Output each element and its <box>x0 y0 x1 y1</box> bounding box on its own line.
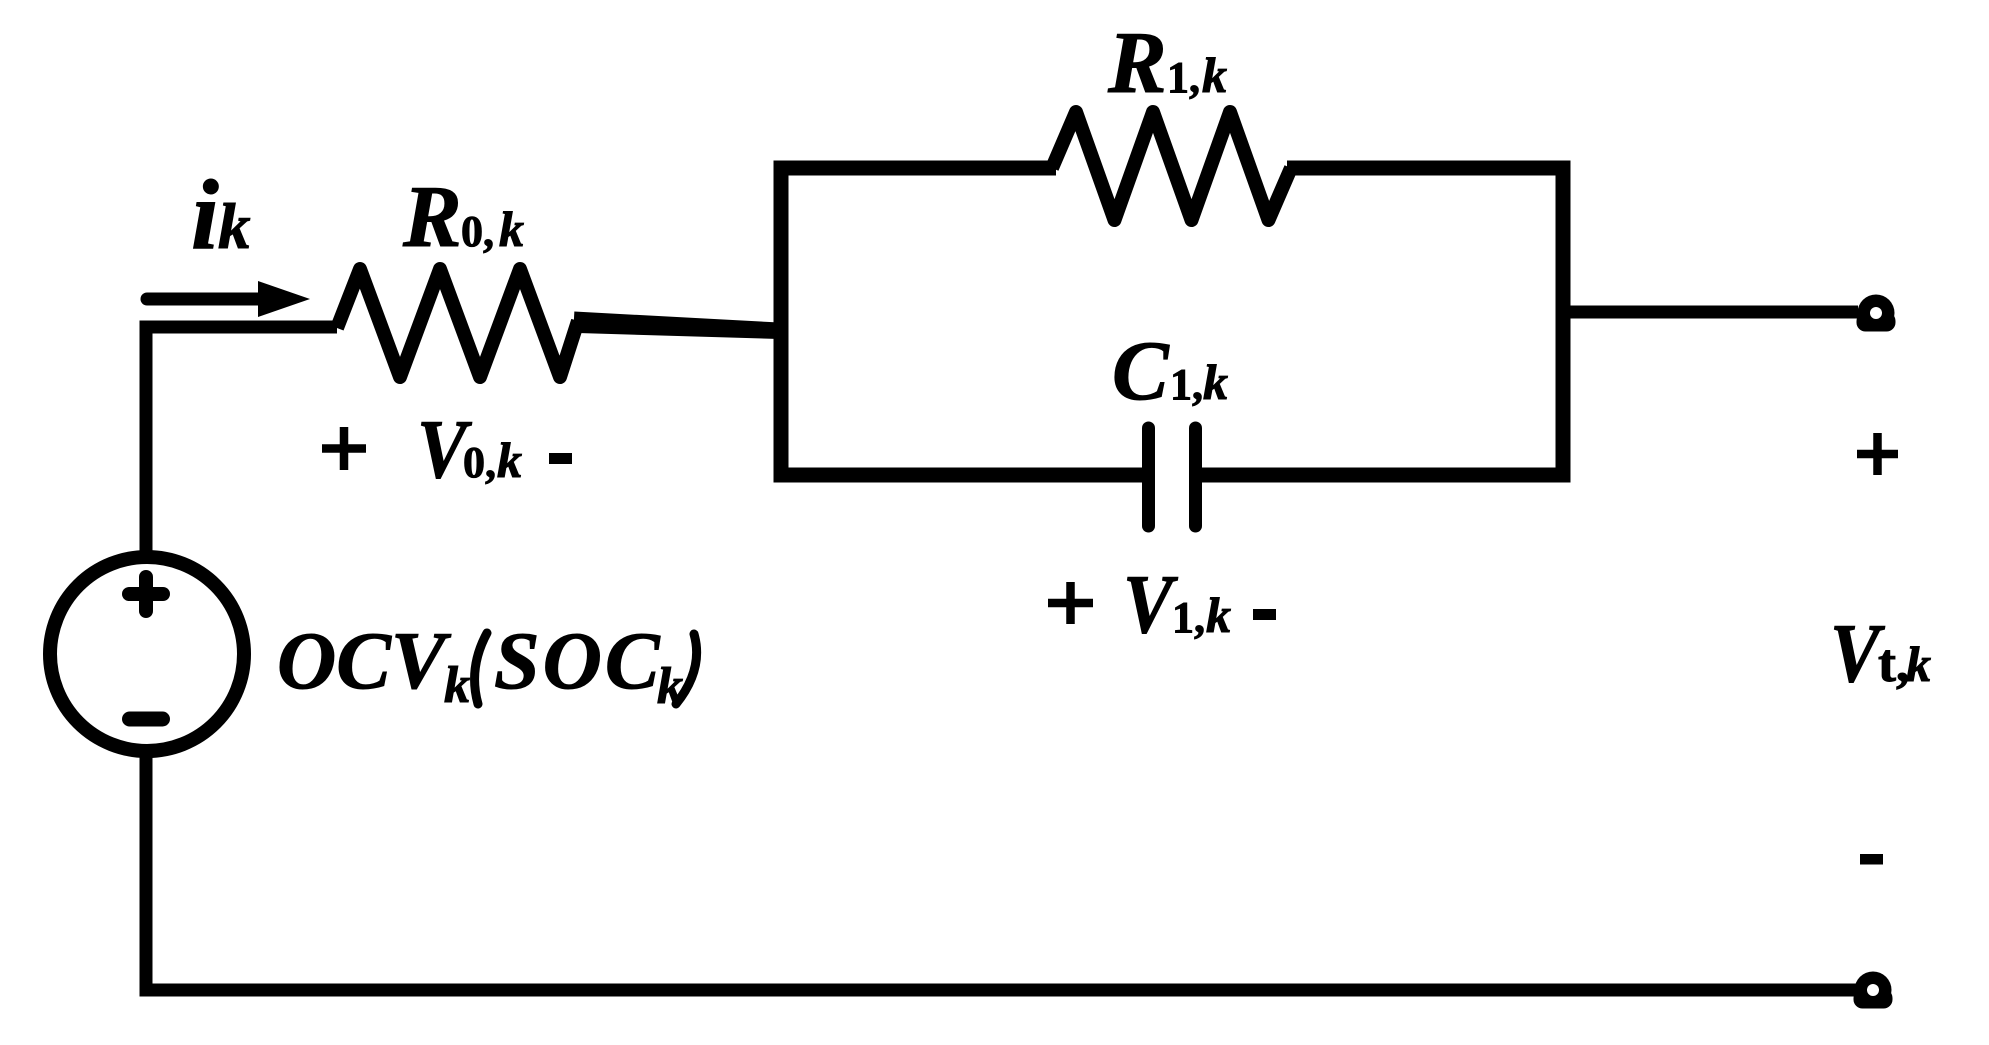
wire left vertical and bottom return net <box>146 327 1860 990</box>
label OCVk(SOCk) <box>277 615 697 715</box>
svg-text:1,: 1, <box>1170 360 1203 409</box>
wire box to output terminal <box>1563 306 1858 319</box>
svg-text:k: k <box>499 201 524 257</box>
svg-text:i: i <box>191 159 219 270</box>
svg-text:k: k <box>1202 47 1227 103</box>
svg-text:k: k <box>497 432 522 488</box>
label Vt,k with polarity <box>1830 433 1931 865</box>
label V0,k with polarity <box>322 403 572 496</box>
minus polarity mark inside source <box>130 712 163 727</box>
voltage source OCV circle <box>50 557 244 751</box>
svg-text:V: V <box>1123 558 1178 651</box>
svg-text:k: k <box>444 657 470 714</box>
svg-text:R: R <box>1107 15 1167 112</box>
svg-text:C: C <box>1112 324 1170 418</box>
plus polarity mark inside source <box>129 577 163 611</box>
svg-text:k: k <box>218 191 251 263</box>
node output terminal top <box>1857 295 1896 332</box>
capacitor C1 plates <box>1149 428 1196 526</box>
label V1,k with polarity <box>1048 558 1276 651</box>
wire R0 to RC box lower stroke <box>578 328 779 334</box>
wire RC box right bar with top and bottom leads <box>1199 168 1563 475</box>
label R0,k <box>402 169 524 266</box>
current arrow ik <box>147 281 310 317</box>
label C1,k <box>1112 324 1228 418</box>
svg-text:t,: t, <box>1878 633 1909 693</box>
label ik <box>191 159 251 270</box>
svg-text:OCV: OCV <box>277 615 452 706</box>
svg-text:k: k <box>1206 587 1231 643</box>
label R1,k <box>1107 15 1227 112</box>
svg-text:SOC: SOC <box>494 615 663 706</box>
resistor R0 zigzag <box>337 269 578 377</box>
resistor R1 zigzag <box>1052 112 1291 220</box>
wire RC box left bar with top and bottom leads <box>781 168 1146 475</box>
node output terminal bottom <box>1854 972 1893 1009</box>
wire R0 to RC box <box>574 318 779 329</box>
svg-text:k: k <box>1203 354 1228 410</box>
svg-text:k: k <box>1906 636 1931 692</box>
svg-text:R: R <box>402 169 462 266</box>
svg-text:0,: 0, <box>461 207 494 256</box>
svg-text:1,: 1, <box>1172 593 1205 642</box>
svg-text:1,: 1, <box>1167 53 1200 102</box>
svg-text:0,: 0, <box>463 438 496 487</box>
